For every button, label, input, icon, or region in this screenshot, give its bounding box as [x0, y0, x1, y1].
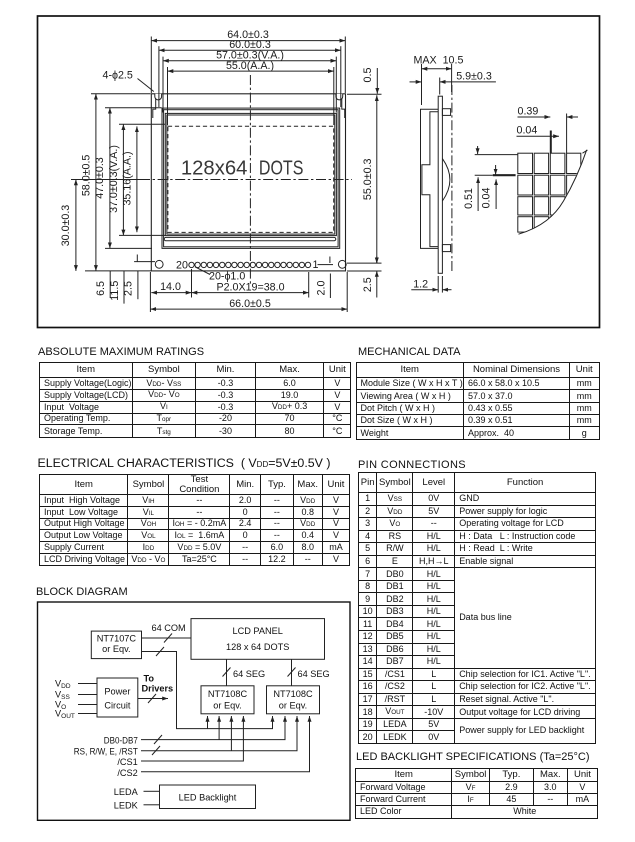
svg-text:20: 20 — [176, 259, 188, 271]
wire NT7107C to LCD PANEL (64 COM) — [142, 637, 192, 639]
ear step top-left — [153, 99, 156, 119]
title: PIN CONNECTIONS — [358, 459, 466, 471]
dim 60.0±0.3 — [159, 49, 341, 51]
side view bezel outer profile — [421, 109, 439, 248]
mounting hole bottom-left — [155, 260, 163, 268]
leader 4-phi2.5 — [138, 79, 154, 92]
svg-text:Drivers: Drivers — [142, 684, 174, 694]
dim 57.0±0.3 (V.A.) — [163, 60, 336, 62]
svg-text:NT7108C: NT7108C — [273, 689, 313, 699]
dim 64.0±0.3 — [151, 40, 345, 42]
title: BLOCK DIAGRAM — [36, 586, 128, 598]
svg-text:/CS2: /CS2 — [117, 768, 137, 778]
svg-text:MAX 10.5: MAX 10.5 — [414, 55, 464, 67]
wire DB0-DB7 — [141, 716, 285, 740]
side view pin centerline — [451, 85, 453, 273]
side view lens arc — [442, 159, 450, 201]
svg-text:1.2: 1.2 — [413, 278, 428, 290]
svg-text:NT7108C: NT7108C — [208, 689, 248, 699]
dim 37.0±0.3 (V.A.) left — [122, 124, 124, 235]
slash 64 SEG left — [223, 668, 231, 677]
slash 64 SEG right — [288, 668, 296, 677]
vertical centerline — [249, 75, 251, 284]
slash on lower wire — [156, 647, 164, 656]
svg-text:LED Backlight: LED Backlight — [179, 793, 237, 803]
svg-text:0.04: 0.04 — [481, 188, 493, 209]
svg-text:66.0±0.5: 66.0±0.5 — [229, 298, 271, 310]
bottom-left baseline — [85, 270, 152, 272]
svg-text:2.5: 2.5 — [362, 277, 374, 292]
slash RS group — [152, 746, 160, 755]
svg-text:or Eqv.: or Eqv. — [279, 701, 307, 711]
svg-text:64 COM: 64 COM — [152, 623, 186, 633]
side view bezel inner profile — [422, 112, 438, 247]
svg-text:P2.0X19=38.0: P2.0X19=38.0 — [216, 281, 284, 293]
dim 2.0 — [329, 274, 331, 299]
svg-text:2.0: 2.0 — [316, 281, 328, 296]
dim 11.5 — [123, 271, 125, 304]
table: absolute maximum ratings — [39, 362, 351, 438]
dim 0.5 top right — [376, 68, 378, 94]
dim 35.16 (A.A.) left — [136, 126, 138, 232]
window outer rect — [165, 113, 336, 235]
block diagram frame — [38, 602, 351, 820]
svg-text:0.5: 0.5 — [362, 68, 374, 83]
mounting notch top-right — [336, 94, 343, 100]
block NT7108C #2 — [267, 686, 320, 714]
svg-text:64 SEG: 64 SEG — [233, 669, 265, 679]
dim 47.0±0.3 left — [109, 108, 111, 249]
svg-text:14.0: 14.0 — [160, 281, 181, 293]
svg-text:55.0(A.A.): 55.0(A.A.) — [226, 60, 274, 72]
dim 0.04 left — [475, 174, 493, 176]
svg-text:/CS1: /CS1 — [117, 757, 137, 767]
svg-text:35.16(A.A.): 35.16(A.A.) — [121, 151, 133, 205]
svg-text:47.0±0.3: 47.0±0.3 — [94, 157, 106, 199]
table: mechanical data — [356, 362, 600, 440]
svg-text:6.5: 6.5 — [95, 281, 107, 296]
wire NT7107C lower to bus — [142, 652, 273, 729]
dim 66.0±0.5 — [150, 308, 347, 310]
dot detail break curve — [519, 150, 587, 234]
svg-text:11.5: 11.5 — [109, 281, 121, 301]
leader to left mounting hole — [134, 261, 155, 263]
svg-text:Power: Power — [104, 687, 130, 697]
svg-text:0.04: 0.04 — [517, 125, 538, 137]
svg-text:Circuit: Circuit — [104, 701, 130, 711]
svg-text:2.5: 2.5 — [123, 281, 135, 296]
svg-text:LCD PANEL: LCD PANEL — [233, 626, 283, 636]
svg-text:5.9±0.3: 5.9±0.3 — [456, 70, 492, 82]
svg-text:30.0±0.3: 30.0±0.3 — [60, 205, 72, 247]
dim line 14.0 / P2.0X19 — [151, 292, 191, 294]
bezel inner line — [164, 110, 339, 247]
ear step top-right — [342, 99, 345, 119]
svg-text:DB0-DB7: DB0-DB7 — [104, 735, 138, 745]
mounting hole bottom-right — [338, 260, 346, 268]
dim 55.0 (A.A.) — [168, 70, 334, 72]
block LED Backlight — [160, 785, 256, 809]
arrow To Drivers — [138, 698, 168, 700]
svg-text:or Eqv.: or Eqv. — [102, 644, 130, 654]
block NT7107C — [91, 631, 141, 659]
wire stub to U2 pin1 — [207, 716, 209, 729]
block NT7108C #1 — [201, 686, 254, 714]
svg-text:LEDK: LEDK — [114, 800, 139, 810]
svg-text:To: To — [144, 674, 155, 684]
title: LED BACKLIGHT SPECIFICATIONS — [356, 751, 590, 763]
svg-text:0.51: 0.51 — [463, 188, 475, 209]
side view bottom pin — [442, 245, 450, 252]
slash To Drivers — [148, 694, 156, 703]
slash DB0-DB7 — [154, 735, 162, 744]
wire LCD to U3 (64 SEG right) — [291, 659, 293, 686]
svg-text:58.0±0.5: 58.0±0.5 — [80, 155, 92, 197]
svg-text:DOTS: DOTS — [259, 158, 304, 180]
table: electrical characteristics — [39, 474, 350, 566]
bezel bottom slot bar — [164, 237, 336, 240]
dim 0.51 left — [477, 146, 479, 154]
dim 30.0±0.3 left — [75, 180, 77, 271]
block Power Circuit — [97, 678, 138, 717]
block LCD PANEL — [191, 619, 325, 660]
drawing frame — [38, 16, 600, 328]
svg-text:4-ϕ2.5: 4-ϕ2.5 — [103, 70, 133, 82]
dim 6.5 — [109, 271, 111, 298]
wire /CS2 — [141, 716, 310, 772]
svg-text:128x64: 128x64 — [181, 158, 248, 180]
window inner line — [167, 115, 335, 234]
dim 2.5 right — [376, 257, 378, 264]
side view PCB bar — [438, 96, 442, 273]
pin holes row 20-phi1.0 — [189, 262, 311, 267]
mounting notch top-left — [155, 94, 162, 100]
leader 20-phi1.0 — [195, 267, 210, 275]
wires power inputs — [78, 683, 97, 685]
dot detail grid — [518, 153, 581, 232]
svg-text:RS, R/W, E, /RST: RS, R/W, E, /RST — [74, 747, 138, 757]
dim 58.0±0.5 left — [95, 94, 97, 271]
svg-text:or Eqv.: or Eqv. — [213, 701, 241, 711]
wire LEDK — [144, 804, 160, 806]
svg-text:VDD: VDD — [55, 679, 71, 691]
wire RS group — [141, 716, 297, 751]
side view top pin — [442, 109, 450, 116]
table: led backlight specifications — [355, 768, 598, 819]
svg-text:NT7107C: NT7107C — [97, 634, 137, 644]
pin 1 leader — [318, 264, 334, 266]
front view PCB outline — [151, 94, 345, 271]
svg-text:0.39: 0.39 — [518, 105, 539, 117]
slash 64 COM — [164, 634, 172, 643]
svg-text:55.0±0.3: 55.0±0.3 — [362, 158, 374, 200]
wire LCD to U2 (64 SEG left) — [226, 659, 228, 686]
wire LEDA — [144, 790, 160, 792]
svg-text:64 SEG: 64 SEG — [298, 669, 330, 679]
wire /CS1 — [141, 716, 243, 761]
title: ELECTRICAL CHARACTERISTICS — [38, 456, 331, 470]
title: ABSOLUTE MAXIMUM RATINGS — [38, 346, 204, 358]
dim 2.5 bottom-left — [137, 271, 139, 299]
dim 55.0±0.3 right — [376, 95, 378, 263]
svg-text:LEDA: LEDA — [114, 787, 139, 797]
dot detail top extension — [475, 154, 518, 156]
bezel outer rect — [162, 108, 340, 248]
horizontal centerline — [140, 179, 352, 181]
active area dashed rect — [168, 126, 334, 232]
table: pin connections — [358, 472, 596, 744]
svg-text:128 x 64 DOTS: 128 x 64 DOTS — [226, 642, 289, 652]
title: MECHANICAL DATA — [358, 346, 460, 358]
